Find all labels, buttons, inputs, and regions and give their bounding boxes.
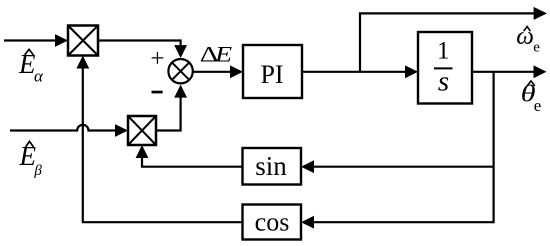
node: arrowhead into cos xyxy=(301,216,314,229)
svg-text:sin: sin xyxy=(255,151,287,181)
svg-text:PI: PI xyxy=(260,60,283,89)
wire: PI output to integrator xyxy=(302,71,405,73)
wire: cos output line to riser up to M1 xyxy=(83,67,243,222)
wire: feedback to cos block xyxy=(313,221,494,223)
svg-text:E: E xyxy=(214,43,232,67)
wire: M1 output to summing junction (right then down) xyxy=(98,41,181,47)
block sin xyxy=(243,148,302,185)
svg-text:cos: cos xyxy=(255,208,290,237)
node: label theta-hat-e xyxy=(521,81,542,116)
node: arrowhead into PI xyxy=(230,65,243,78)
svg-text:+: + xyxy=(150,45,164,72)
wire: feedback to sin block xyxy=(313,166,494,168)
wire: E-beta input line with hop over cos riser xyxy=(10,125,115,131)
svg-text:s: s xyxy=(438,66,449,98)
wire: summing junction to PI xyxy=(193,71,231,73)
block PI xyxy=(243,45,302,98)
wire: M2 output to summing junction (right then up) xyxy=(156,97,181,131)
node: arrowhead theta output xyxy=(534,65,547,78)
svg-text:ω: ω xyxy=(516,23,534,50)
node: minus sign xyxy=(152,91,163,94)
node: label E-beta hat xyxy=(19,141,43,179)
node: arrowhead omega output xyxy=(534,7,547,20)
node: label omega-hat-e xyxy=(516,23,540,56)
node: arrowhead into multiplier M1 xyxy=(55,34,68,47)
node: arrowhead into integrator xyxy=(405,65,418,78)
node: arrowhead up into summing junction bottom xyxy=(174,85,187,98)
node: arrowhead up into M2 bottom xyxy=(136,145,149,158)
node: arrowhead down into summing junction top xyxy=(174,45,187,58)
svg-text:β: β xyxy=(33,163,42,179)
multiplier M1 (square with X) xyxy=(68,26,98,56)
multiplier M2 (square with X) xyxy=(128,116,156,145)
wire: feedback vertical from theta line down xyxy=(493,72,495,224)
svg-text:1: 1 xyxy=(437,38,450,65)
block integrator 1/s xyxy=(418,32,472,104)
wire: integrator output to theta output xyxy=(472,71,534,73)
node: arrowhead up into M1 bottom xyxy=(76,56,89,69)
block cos xyxy=(243,205,302,240)
node A: label E-alpha hat xyxy=(18,49,44,86)
svg-text:e: e xyxy=(534,96,542,115)
node: arrowhead into M2 xyxy=(115,124,128,137)
wire: branch up from PI output to omega output xyxy=(360,13,534,71)
node: arrowhead into sin xyxy=(301,160,314,173)
wire: E-alpha input line xyxy=(4,39,56,41)
node: label delta-E xyxy=(200,42,232,67)
svg-text:α: α xyxy=(34,67,44,86)
summing junction S1 (circle with X) xyxy=(168,59,192,83)
wire: sin output to multiplier M2 (left then up) xyxy=(142,157,243,167)
svg-text:e: e xyxy=(533,40,540,56)
